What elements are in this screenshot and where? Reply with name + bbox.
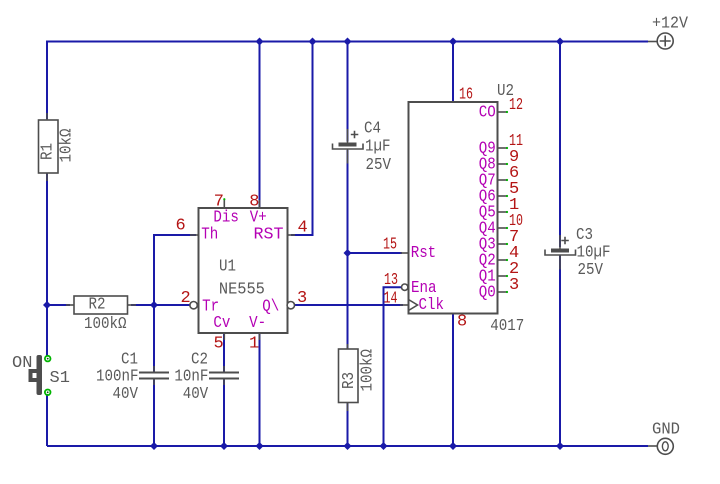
svg-text:Rst: Rst [411, 244, 437, 263]
wire C1 column upper [153, 305, 155, 372]
svg-text:R2: R2 [89, 296, 106, 315]
svg-text:5: 5 [214, 335, 224, 354]
svg-text:100kΩ: 100kΩ [359, 349, 378, 392]
junction top C3 column [556, 38, 564, 46]
svg-text:Clk: Clk [419, 296, 445, 315]
svg-text:GND: GND [652, 421, 680, 440]
U2 pin 13 Ena [384, 271, 437, 298]
svg-text:6: 6 [176, 217, 186, 236]
resistor R2 [66, 296, 136, 334]
junction top C4 column [344, 38, 352, 46]
U1 pin 5 Cv [213, 314, 230, 354]
resistor R3 [339, 344, 378, 411]
junction bottom C2 [220, 442, 228, 450]
svg-text:40V: 40V [113, 385, 139, 404]
junction bottom pin1 [256, 442, 264, 450]
junction R2 right C1 [150, 301, 158, 309]
svg-text:1: 1 [249, 335, 259, 354]
wire R2 right to pin2 [131, 304, 190, 306]
U1 pin 4 RST [254, 219, 308, 245]
U2 pin 12 CO [479, 96, 523, 123]
counter U2 4017 body [409, 82, 525, 336]
svg-text:Q0: Q0 [479, 284, 496, 303]
svg-text:25V: 25V [578, 261, 604, 280]
svg-text:100nF: 100nF [96, 368, 139, 387]
U1 pin 7 Dis stub [213, 193, 239, 228]
wire Q out to Clk [295, 304, 404, 306]
svg-text:40V: 40V [183, 385, 209, 404]
U1 pin 8 V+ label [249, 193, 266, 228]
junction Rst line [344, 249, 352, 257]
wire C4 column top [347, 42, 349, 142]
U2 pin 1 Q5 [479, 196, 520, 223]
U2 pin 15 Rst [383, 236, 436, 264]
U1 pin 2 Tr [181, 289, 220, 317]
svg-text:10µF: 10µF [577, 244, 611, 263]
svg-text:25V: 25V [366, 156, 392, 175]
svg-text:8: 8 [457, 313, 467, 332]
U2 pin 10 Q4 [479, 212, 523, 239]
ground GND [648, 421, 680, 455]
U2 pin 11 Q9 [479, 132, 523, 159]
U1 pin 1 V- [249, 314, 266, 354]
wire R2 left [47, 304, 70, 306]
wire C1 column lower [153, 380, 155, 447]
wire pin16 column [452, 42, 454, 102]
wire U2 pin8 to bottom rail [452, 313, 454, 447]
wire S1 bottom to bottom rail [46, 394, 48, 446]
wire RST riser [291, 42, 313, 236]
U2 pin 3 Q0 [479, 276, 520, 303]
power +12V [648, 15, 689, 49]
capacitor C3 polarized [545, 226, 611, 280]
svg-text:NE555: NE555 [219, 280, 265, 299]
U2 pin 5 Q6 [479, 180, 520, 207]
svg-text:Cv: Cv [213, 314, 230, 333]
wire pin1 to bottom rail [259, 333, 261, 446]
wire C3 column top [559, 42, 561, 248]
svg-text:3: 3 [297, 289, 307, 308]
U2 pin 7 Q3 [479, 228, 520, 255]
svg-text:15: 15 [383, 236, 397, 255]
svg-text:4017: 4017 [490, 317, 524, 336]
U2 pin 4 Q2 [479, 244, 520, 271]
wire C2 to bottom rail [223, 380, 225, 447]
svg-text:2: 2 [181, 289, 191, 308]
svg-text:S1: S1 [50, 369, 70, 388]
svg-text:C4: C4 [364, 120, 381, 139]
capacitor C4 polarized [333, 120, 392, 176]
U2 pin 14 Clk [384, 290, 445, 316]
U1 pin 3 Q out [262, 289, 307, 317]
junction bottom Ena [380, 442, 388, 450]
junction bottom U2 pin8 [449, 442, 457, 450]
svg-text:1µF: 1µF [365, 138, 391, 157]
svg-text:3: 3 [509, 276, 519, 295]
wire pin5 to C2 [223, 333, 225, 372]
wire C3 to bottom rail [559, 256, 561, 447]
svg-text:13: 13 [384, 271, 398, 290]
junction bottom C1 [150, 442, 158, 450]
U2 pin 16 [459, 86, 473, 105]
wire Th horizontal [154, 235, 196, 305]
svg-text:R3: R3 [340, 372, 359, 389]
svg-text:12: 12 [509, 96, 523, 115]
svg-text:10kΩ: 10kΩ [58, 129, 77, 163]
junction R2 left [43, 301, 51, 309]
switch S1 [12, 354, 70, 395]
wire Rst line [348, 252, 403, 254]
U2 pin 2 Q1 [479, 260, 520, 287]
svg-text:+12V: +12V [652, 15, 689, 34]
svg-text:RST: RST [254, 226, 284, 245]
wire bottom rail [47, 445, 648, 447]
U2 pin 6 Q7 [479, 164, 520, 191]
resistor R1 [39, 113, 77, 181]
junction bottom R3 [344, 442, 352, 450]
svg-text:16: 16 [459, 86, 473, 105]
junction top RST column [309, 38, 317, 46]
wire left column R1 to R2 junction [46, 173, 48, 356]
capacitor C1 [96, 351, 169, 405]
svg-text:Th: Th [201, 226, 218, 245]
svg-text:CO: CO [479, 104, 496, 123]
wire R3 to bottom rail [347, 403, 349, 447]
U1 pin 6 Th [176, 217, 219, 245]
svg-text:14: 14 [384, 290, 398, 309]
wire pin8 V+ column [259, 42, 261, 209]
junction top pin8 column [256, 38, 264, 46]
svg-text:10nF: 10nF [174, 368, 208, 387]
svg-text:C3: C3 [576, 226, 593, 245]
wire Ena [384, 287, 402, 446]
svg-text:V-: V- [249, 314, 266, 333]
svg-text:R1: R1 [39, 143, 58, 160]
junction bottom C3 [556, 442, 564, 450]
U2 pin 9 Q8 [479, 148, 520, 175]
U2 pin 8 [457, 313, 467, 332]
svg-text:U1: U1 [219, 258, 236, 277]
wire top rail [47, 42, 648, 120]
svg-text:100kΩ: 100kΩ [84, 315, 127, 334]
capacitor C2 [174, 351, 239, 405]
svg-text:4: 4 [298, 219, 308, 238]
wire C4 to R3 [347, 150, 349, 349]
junction top pin16 column [449, 38, 457, 46]
op-amp U1 NE555 body [199, 208, 288, 333]
